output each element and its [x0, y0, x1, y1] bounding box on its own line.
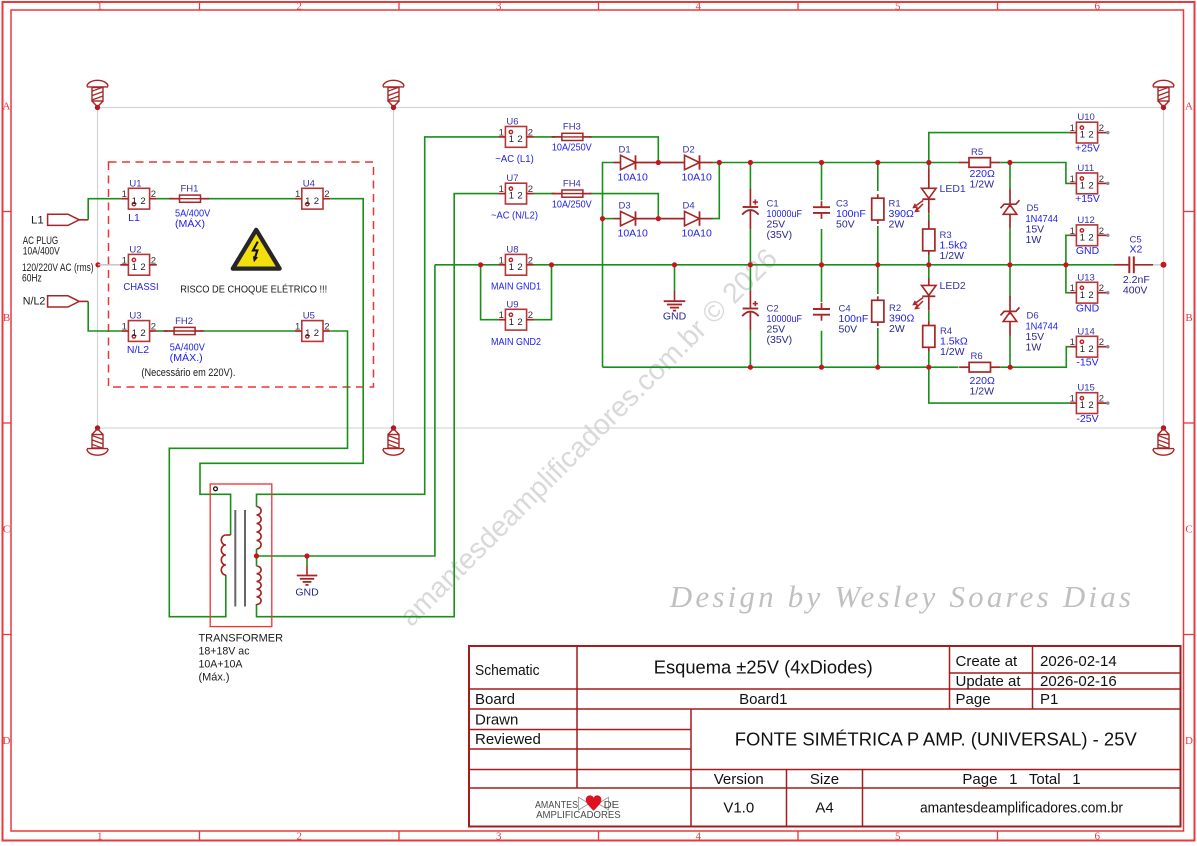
resistor R5 — [959, 158, 1000, 168]
transformer primary winding — [226, 534, 231, 536]
wire chassis gray link — [98, 264, 120, 266]
svg-text:2: 2 — [1088, 344, 1093, 355]
capacitor C1 (electrolytic) — [742, 189, 758, 229]
wire U3 pin2 to FH2 — [157, 330, 168, 332]
wire U4 pin2 to transformer primary top — [200, 199, 363, 535]
svg-text:50V: 50V — [836, 219, 855, 231]
svg-text:10A10: 10A10 — [618, 228, 649, 240]
svg-text:10A/250V: 10A/250V — [552, 198, 592, 210]
dashed warning enclosure box — [109, 162, 374, 387]
wire D4 cathode up to positive node — [712, 163, 719, 219]
label TRANSFORMER specs — [199, 633, 284, 684]
junction GND rail x=750.4 — [748, 262, 753, 267]
svg-text:1/2W: 1/2W — [940, 346, 965, 358]
svg-text:2: 2 — [1088, 181, 1093, 192]
connector U6 — [498, 127, 534, 148]
svg-text:2: 2 — [517, 262, 522, 273]
wire GND symbol tap at rail — [674, 265, 676, 291]
svg-text:2W: 2W — [889, 323, 905, 335]
svg-text:400V: 400V — [1123, 285, 1148, 297]
LED LED2 — [913, 278, 936, 311]
svg-text:D1: D1 — [619, 144, 631, 155]
svg-text:2: 2 — [140, 328, 145, 339]
svg-text:3: 3 — [496, 0, 502, 12]
svg-text:2: 2 — [140, 262, 145, 273]
svg-text:Board1: Board1 — [739, 691, 787, 708]
svg-text:(35V): (35V) — [767, 334, 793, 346]
border column ticks — [199, 2, 201, 10]
mounting screw M5 — [383, 425, 404, 455]
wire U9 pin2 loop — [534, 265, 552, 320]
connector U1 — [121, 188, 157, 209]
svg-text:U13: U13 — [1077, 272, 1094, 283]
junction top rail x=877.8 — [875, 160, 880, 165]
svg-text:Design by Wesley Soares Dias: Design by Wesley Soares Dias — [669, 579, 1134, 614]
wire bridge negative leg (D1/D3 anodes to bottom rail) — [603, 163, 614, 368]
svg-text:FH2: FH2 — [175, 316, 193, 327]
connector U14 — [1069, 336, 1109, 357]
diode D3 — [614, 211, 659, 225]
wire FH2 to U5 pin1 — [202, 330, 295, 332]
svg-text:1: 1 — [97, 0, 103, 12]
transformer core — [234, 510, 236, 607]
svg-text:L1: L1 — [128, 212, 140, 224]
connector U7 — [498, 183, 534, 204]
svg-text:1: 1 — [1070, 394, 1075, 405]
svg-text:GND: GND — [295, 587, 319, 599]
junction bottom rail x=1010.2 — [1008, 365, 1013, 370]
svg-text:2: 2 — [528, 127, 533, 138]
svg-text:1: 1 — [509, 317, 514, 328]
svg-text:5: 5 — [895, 0, 901, 12]
svg-text:U14: U14 — [1077, 326, 1094, 337]
pin numbers U9 — [499, 310, 533, 328]
transformer secondary winding upper — [257, 507, 262, 550]
wire C2 branch lower — [749, 330, 751, 367]
junction bottom rail x=877.8 — [875, 365, 880, 370]
junction bottom rail x=928.8 — [926, 365, 931, 370]
junction transformer center tap — [254, 553, 259, 558]
diode D4 — [658, 211, 712, 225]
connector U3 — [121, 321, 157, 342]
svg-text:U15: U15 — [1077, 383, 1094, 394]
junction GND rail x=1009.9 — [1007, 262, 1012, 267]
svg-text:1/2W: 1/2W — [970, 386, 995, 398]
svg-text:10A+10A: 10A+10A — [199, 659, 244, 671]
pin stub N/L2 plug — [79, 300, 88, 302]
wire bottom rail -25V — [603, 366, 959, 368]
svg-text:1: 1 — [295, 322, 300, 333]
svg-text:2026-02-14: 2026-02-14 — [1040, 653, 1117, 670]
ground symbol GND (main rail) — [672, 262, 677, 267]
pin numbers U3 — [122, 322, 156, 340]
svg-text:Reviewed: Reviewed — [475, 731, 541, 748]
svg-text:2: 2 — [140, 196, 145, 207]
capacitor C3 — [813, 201, 830, 219]
fuse FH1 — [169, 195, 209, 202]
svg-text:4: 4 — [696, 830, 702, 842]
svg-text:FH3: FH3 — [563, 122, 581, 133]
wire R3 to GND rail — [928, 254, 930, 265]
wire R5 out to +15V branch — [1010, 163, 1069, 184]
junction GND rail x=877.8 — [875, 262, 880, 267]
svg-text:P1: P1 — [1040, 691, 1058, 708]
svg-text:2: 2 — [314, 328, 319, 339]
svg-text:1: 1 — [1070, 226, 1075, 237]
svg-text:1: 1 — [122, 255, 127, 266]
sheet divider (gray) — [393, 108, 395, 429]
connector U11 — [1069, 173, 1109, 194]
svg-text:2: 2 — [297, 830, 303, 842]
svg-text:2: 2 — [1088, 232, 1093, 243]
svg-text:1W: 1W — [1026, 234, 1042, 246]
svg-text:U12: U12 — [1077, 215, 1094, 226]
connector U2 — [121, 254, 157, 275]
svg-text:A: A — [3, 101, 11, 113]
pin numbers U6 — [499, 127, 533, 145]
svg-text:1: 1 — [499, 255, 504, 266]
svg-text:2: 2 — [1099, 123, 1104, 134]
svg-text:Schematic: Schematic — [475, 662, 540, 679]
svg-text:(Necessário em 220V).: (Necessário em 220V). — [141, 367, 235, 379]
AC plug terminal N/L2 — [48, 296, 80, 307]
wire D2 cathode to positive node — [712, 162, 719, 164]
wire C1 branch upper — [749, 163, 751, 190]
svg-text:1: 1 — [122, 189, 127, 200]
node end of GND rail — [1161, 262, 1167, 268]
svg-text:1: 1 — [509, 262, 514, 273]
svg-text:1: 1 — [1070, 123, 1075, 134]
wire -25V tap to U15 — [929, 367, 1069, 403]
svg-text:U8: U8 — [506, 244, 518, 255]
fuse FH4 — [552, 190, 592, 197]
border row ticks — [3, 211, 12, 213]
wire C1 branch lower — [749, 229, 751, 265]
svg-text:RISCO DE CHOQUE ELÉTRICO !!!: RISCO DE CHOQUE ELÉTRICO !!! — [180, 282, 327, 295]
svg-text:D: D — [1185, 735, 1193, 747]
svg-text:1: 1 — [1080, 232, 1085, 243]
svg-text:-15V: -15V — [1076, 356, 1098, 368]
connector U13 — [1069, 282, 1109, 303]
svg-text:2: 2 — [1099, 174, 1104, 185]
svg-text:1: 1 — [509, 134, 514, 145]
svg-text:1: 1 — [295, 189, 300, 200]
mounting screw M3 — [1153, 80, 1174, 110]
wire mid GND rail left part — [435, 264, 481, 266]
svg-text:50V: 50V — [839, 323, 858, 335]
wire U5 pin2 to transformer primary bottom — [169, 331, 347, 617]
svg-text:D2: D2 — [683, 144, 695, 155]
svg-text:D: D — [3, 735, 11, 747]
wire U9 pin1 loop — [481, 265, 499, 320]
svg-text:AMPLIFICADORES: AMPLIFICADORES — [536, 810, 621, 821]
svg-text:U4: U4 — [303, 178, 315, 189]
junction bottom rail x=821.5 — [819, 365, 824, 370]
svg-text:CHASSI: CHASSI — [123, 281, 158, 293]
wire U8 pin2 to rail — [534, 264, 552, 266]
wire secondary mid segment — [256, 549, 258, 566]
transformer polarity mark — [214, 487, 218, 491]
svg-text:FONTE SIMÉTRICA P AMP. (UNIVER: FONTE SIMÉTRICA P AMP. (UNIVERSAL) - 25V — [735, 729, 1137, 749]
svg-text:1: 1 — [132, 328, 137, 339]
svg-text:6: 6 — [1095, 830, 1101, 842]
wire D6 branch lower — [1009, 336, 1011, 367]
svg-text:2: 2 — [1088, 290, 1093, 301]
capacitor C2 (electrolytic) — [742, 290, 758, 330]
wire D3 anode from negative leg — [603, 218, 614, 220]
wire C3 branch upper — [821, 163, 823, 201]
pin numbers U11 — [1070, 174, 1104, 192]
svg-text:10A10: 10A10 — [618, 172, 649, 184]
junction GND rail x=1065.9 — [1063, 262, 1068, 267]
diode D2 — [658, 155, 712, 169]
junction bottom rail x=750.4 — [748, 365, 753, 370]
wire U1 pin2 to FH1 — [157, 198, 173, 200]
wire R2 branch upper — [877, 265, 879, 294]
svg-text:2: 2 — [151, 189, 156, 200]
svg-text:GND: GND — [663, 311, 687, 323]
fuse FH2 — [164, 327, 204, 334]
title block frame — [469, 646, 1181, 827]
diode D1 — [614, 155, 659, 169]
wire R2 branch lower — [877, 328, 879, 367]
svg-text:60Hz: 60Hz — [22, 273, 42, 285]
LED LED1 — [913, 169, 936, 214]
svg-text:U9: U9 — [506, 299, 518, 310]
fuse FH3 — [552, 133, 592, 140]
svg-text:1: 1 — [1070, 337, 1075, 348]
connector U4 — [295, 188, 331, 209]
wire transformer secondary bottom to U7 pin1 (~AC N/L2) — [257, 194, 499, 617]
svg-text:Version: Version — [714, 771, 764, 788]
connector U9 — [498, 309, 534, 330]
capacitor C4 — [813, 303, 830, 321]
svg-text:Create at: Create at — [956, 653, 1019, 670]
mounting screw M2 — [383, 80, 404, 110]
svg-text:2W: 2W — [889, 219, 905, 231]
svg-text:U10: U10 — [1077, 112, 1094, 123]
pin numbers U15 — [1070, 394, 1104, 412]
svg-text:1: 1 — [1080, 130, 1085, 141]
svg-text:U7: U7 — [506, 173, 518, 184]
wire D5 branch upper — [1009, 163, 1011, 189]
svg-text:D3: D3 — [619, 200, 631, 211]
svg-text:1: 1 — [1070, 283, 1075, 294]
resistor R6 — [959, 362, 1000, 372]
wire mid GND rail right part — [552, 264, 1114, 266]
wire U7 pin2 to FH4 — [534, 193, 556, 195]
mounting screw M1 — [87, 80, 108, 110]
svg-text:1: 1 — [1080, 400, 1085, 411]
wire transformer GND tap — [306, 556, 308, 566]
svg-text:amantesdeamplificadores.com.br: amantesdeamplificadores.com.br — [920, 799, 1123, 816]
wire R6 stub to node — [1000, 366, 1010, 368]
svg-text:1: 1 — [1070, 174, 1075, 185]
wire C3 branch lower — [821, 229, 823, 265]
wire R4 to bottom rail — [928, 351, 930, 367]
svg-text:N/L2: N/L2 — [23, 296, 46, 308]
svg-text:2: 2 — [324, 322, 329, 333]
svg-text:GND: GND — [1076, 245, 1100, 257]
svg-text:(MÁX): (MÁX) — [175, 217, 205, 230]
svg-text:2: 2 — [1099, 337, 1104, 348]
svg-text:U5: U5 — [303, 311, 315, 322]
sheet outline (gray) — [98, 108, 1164, 429]
svg-text:1: 1 — [499, 127, 504, 138]
svg-text:+25V: +25V — [1075, 142, 1100, 154]
wire C4 branch lower — [821, 331, 823, 367]
svg-text:Size: Size — [810, 771, 839, 788]
junction top rail x=821.5 — [819, 160, 824, 165]
junction bridge positive node — [717, 160, 722, 165]
ground symbol GND (transformer) — [304, 553, 309, 558]
svg-text:TRANSFORMER: TRANSFORMER — [199, 633, 284, 645]
svg-text:V1.0: V1.0 — [723, 799, 754, 816]
wire N/L2 plug to U3 pin1 — [88, 301, 121, 331]
pin numbers U13 — [1070, 283, 1104, 301]
svg-text:2: 2 — [1099, 394, 1104, 405]
zener diode D6 — [1001, 296, 1020, 336]
svg-text:A4: A4 — [815, 799, 833, 816]
svg-text:1: 1 — [122, 322, 127, 333]
svg-text:10A10: 10A10 — [682, 228, 713, 240]
svg-text:2: 2 — [517, 134, 522, 145]
svg-text:X2: X2 — [1130, 244, 1143, 256]
junction top rail x=928.8 — [926, 160, 931, 165]
svg-text:Drawn: Drawn — [475, 712, 518, 729]
wire LED2 branch top — [928, 265, 930, 278]
svg-text:MAIN GND2: MAIN GND2 — [491, 336, 541, 348]
svg-text:1: 1 — [509, 191, 514, 202]
pin numbers U12 — [1070, 226, 1104, 244]
pin numbers U4 — [295, 189, 329, 207]
wire L1 plug to U1 pin1 — [88, 199, 121, 220]
wire R6 out to -15V branch — [1010, 347, 1069, 368]
svg-text:R5: R5 — [971, 147, 983, 158]
svg-text:1: 1 — [499, 184, 504, 195]
junction R5 output node — [1007, 160, 1012, 165]
svg-text:1: 1 — [1080, 181, 1085, 192]
junction GND rail x=551.5 — [549, 262, 554, 267]
svg-text:Esquema ±25V (4xDiodes): Esquema ±25V (4xDiodes) — [654, 658, 873, 678]
svg-text:(35V): (35V) — [767, 229, 793, 241]
svg-text:LED1: LED1 — [940, 183, 966, 195]
connector U8 — [498, 254, 534, 275]
transformer secondary winding lower — [257, 566, 262, 605]
wire +25V tap to U10 — [929, 133, 1069, 163]
svg-text:Update at: Update at — [956, 673, 1022, 690]
svg-text:~AC (N/L2): ~AC (N/L2) — [491, 210, 538, 222]
svg-text:FH4: FH4 — [563, 178, 581, 189]
svg-text:1/2W: 1/2W — [940, 250, 965, 262]
svg-text:10A10: 10A10 — [682, 172, 713, 184]
pin stub L1 plug — [79, 219, 88, 221]
wire R5 stub to node — [1000, 162, 1010, 164]
svg-text:U3: U3 — [129, 311, 141, 322]
svg-text:1: 1 — [132, 262, 137, 273]
svg-text:1: 1 — [305, 196, 310, 207]
connector U12 — [1069, 225, 1109, 246]
resistor R2 — [872, 296, 884, 326]
pin numbers U10 — [1070, 123, 1104, 141]
svg-text:LED2: LED2 — [940, 280, 966, 292]
resistor R3 — [923, 220, 935, 255]
wire U12 tap from GND rail — [1066, 235, 1069, 264]
wire U8 pin1 from rail — [481, 264, 499, 266]
wire LED1 to R3 — [928, 214, 930, 220]
svg-text:GND: GND — [1076, 302, 1100, 314]
pin stub U2 pin1 — [120, 264, 128, 266]
junction bridge AC1 node — [656, 160, 661, 165]
mounting screw M4 — [87, 425, 108, 455]
svg-text:A: A — [1185, 101, 1193, 113]
svg-text:~AC (L1): ~AC (L1) — [495, 153, 534, 165]
svg-text:2: 2 — [297, 0, 303, 12]
svg-text:2: 2 — [1088, 130, 1093, 141]
AC plug terminal L1 — [48, 214, 80, 225]
svg-text:2: 2 — [1099, 283, 1104, 294]
wire LED2 to R4 — [928, 311, 930, 322]
svg-text:(MÁX.): (MÁX.) — [170, 351, 203, 364]
svg-text:6: 6 — [1095, 0, 1101, 12]
svg-text:2: 2 — [314, 196, 319, 207]
svg-text:10A/400V: 10A/400V — [23, 246, 60, 258]
wire R1 branch lower — [877, 226, 879, 265]
transformer T1 body box — [210, 484, 272, 627]
junction GND rail x=821.5 — [819, 262, 824, 267]
wire C4 branch upper — [821, 265, 823, 302]
svg-text:2: 2 — [151, 255, 156, 266]
connector U5 — [295, 321, 331, 342]
warning triangle (electric shock hazard) — [233, 230, 280, 269]
svg-text:2: 2 — [528, 255, 533, 266]
svg-text:1: 1 — [97, 830, 103, 842]
svg-text:+15V: +15V — [1075, 193, 1100, 205]
svg-text:2: 2 — [517, 317, 522, 328]
connector U15 — [1069, 393, 1109, 414]
logo AMANTES DE AMPLIFICADORES — [535, 795, 621, 821]
svg-text:18+18V ac: 18+18V ac — [199, 646, 250, 658]
svg-text:U2: U2 — [129, 244, 141, 255]
svg-text:4: 4 — [696, 0, 702, 12]
mounting screw M6 — [1153, 425, 1174, 455]
junction chassis reference point — [95, 262, 100, 267]
wire FH1 to U4 pin1 — [207, 198, 295, 200]
pin numbers U1 — [122, 189, 156, 207]
junction top rail x=750.4 — [748, 160, 753, 165]
svg-text:FH1: FH1 — [181, 184, 199, 195]
svg-text:Page: Page — [956, 691, 991, 708]
wire LED1 branch top — [928, 163, 930, 169]
svg-text:B: B — [3, 312, 10, 324]
junction bridge AC2 node — [656, 216, 661, 221]
svg-text:1W: 1W — [1026, 341, 1042, 353]
connector U10 — [1069, 122, 1109, 143]
resistor R4 — [923, 322, 935, 352]
wire D6 branch upper — [1009, 265, 1011, 297]
zener diode D5 — [1001, 189, 1020, 229]
svg-text:2026-02-16: 2026-02-16 — [1040, 673, 1117, 690]
svg-text:1: 1 — [1080, 344, 1085, 355]
wire transformer secondary top to U6 pin1 (~AC L1) — [257, 137, 499, 507]
resistor R1 — [872, 194, 884, 224]
wire FH3 to bridge node AC1 — [590, 137, 659, 161]
wire U13 tap from GND rail — [1066, 265, 1069, 293]
svg-text:1: 1 — [1080, 290, 1085, 301]
svg-text:2: 2 — [528, 310, 533, 321]
svg-text:R6: R6 — [971, 351, 983, 362]
pin numbers U14 — [1070, 337, 1104, 355]
